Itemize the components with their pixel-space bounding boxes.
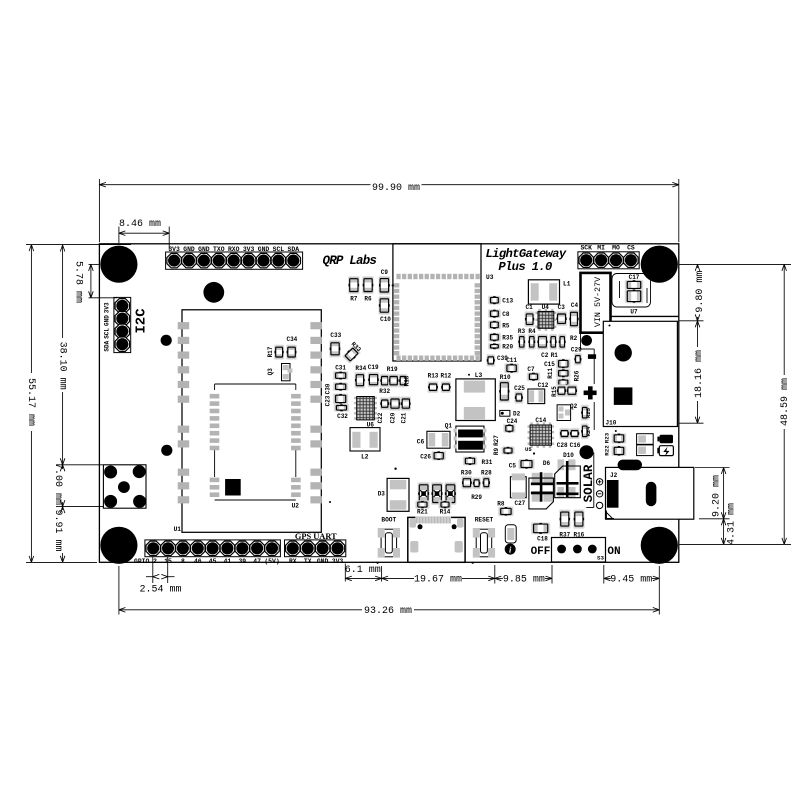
svg-text:L2: L2 [361,454,369,461]
svg-text:R24: R24 [585,426,592,437]
module U2 [210,384,331,510]
svg-text:C34: C34 [286,336,297,343]
svg-text:L3: L3 [475,372,483,379]
solar pads [596,479,602,509]
svg-text:55.17 mm: 55.17 mm [25,378,36,426]
svg-text:J2: J2 [610,472,618,479]
resistor R10 [499,374,511,402]
connector J4 SPI header SCK/MI/MO/CS [578,244,639,268]
svg-text:R11: R11 [547,368,554,379]
svg-text:R5: R5 [502,322,510,329]
svg-text:U4: U4 [542,304,550,311]
connector J6 GPS UART header [285,532,346,565]
svg-text:46: 46 [194,558,202,565]
svg-text:C13: C13 [502,298,513,305]
svg-text:R7: R7 [350,296,358,303]
svg-text:GND: GND [198,246,210,253]
component small near info [505,525,516,543]
svg-text:39: 39 [238,558,246,565]
svg-text:38.10 mm: 38.10 mm [56,342,67,390]
capacitor C18 [531,522,550,542]
capacitor C32 [334,404,349,420]
svg-text:3V3: 3V3 [103,302,110,313]
svg-text:R3: R3 [518,328,526,335]
svg-text:Q1: Q1 [445,422,453,429]
dimension 7.00 mm switch height [52,463,103,507]
silkscreen text QRP Labs [323,254,377,268]
svg-text:R28: R28 [481,470,492,477]
connector J3 I2C header [103,297,149,352]
dimension 93.26 mm [119,566,659,617]
svg-text:C6: C6 [417,439,425,446]
resistor R6 [362,276,374,302]
svg-text:U7: U7 [630,309,638,316]
capacitor C21 [401,396,412,423]
svg-text:R35: R35 [502,335,513,342]
resistor R8 [497,500,513,516]
capacitor C3 [556,304,567,326]
resistor R37 [559,510,570,539]
dimension 9.85 mm [495,565,552,586]
svg-text:C25: C25 [514,385,525,392]
svg-text:8: 8 [181,558,185,565]
PCB board outline [99,244,678,563]
svg-text:R27: R27 [493,435,500,446]
resistor R11 [547,368,571,379]
capacitor C8 [488,309,510,318]
via left of U1 [161,335,172,346]
inductor L2 [350,428,380,461]
dimension 9.20 mm [695,468,730,519]
svg-text:C19: C19 [368,364,379,371]
svg-text:R12: R12 [440,373,451,380]
capacitor C5 [509,459,535,470]
resistor R2 [558,334,577,350]
svg-text:BOOT: BOOT [381,517,396,524]
dimension 55.17 mm board height [25,245,97,563]
svg-text:C18: C18 [537,536,548,543]
svg-text:9.20 mm: 9.20 mm [711,475,722,517]
svg-text:I2C: I2C [134,308,150,334]
resistor R34 [355,365,367,388]
svg-text:R9: R9 [493,448,500,456]
capacitor C23 [325,394,349,407]
resistor R24 [581,424,592,440]
svg-text:99.90 mm: 99.90 mm [372,183,420,194]
svg-text:19.67 mm: 19.67 mm [414,575,462,586]
svg-text:R2: R2 [570,335,578,342]
svg-text:R14: R14 [440,508,451,515]
svg-text:RXO: RXO [228,246,240,253]
svg-text:C17: C17 [629,274,640,281]
svg-text:C5: C5 [509,463,517,470]
diode D6 [529,460,554,509]
svg-text:C12: C12 [538,382,549,389]
dimension 9.45 mm [604,565,660,615]
svg-text:5.78 mm: 5.78 mm [73,261,84,303]
svg-text:D2: D2 [513,411,521,418]
connector J5 GPIO header [134,540,280,565]
resistor R25 [581,405,592,421]
svg-text:RX: RX [289,558,297,565]
silkscreen VIN 5V-27V box [581,273,611,333]
capacitor C29 [571,347,582,366]
switch BOOT [377,517,401,564]
capacitor C1 [525,304,535,327]
svg-text:VIN 5V-27V: VIN 5V-27V [593,277,603,327]
transistor Q3 [267,364,293,381]
capacitor C11 [504,357,519,373]
svg-text:C31: C31 [335,365,346,372]
inductor L3 [456,372,495,420]
capacitor C19 [368,364,380,387]
svg-text:QRP Labs: QRP Labs [323,254,377,268]
capacitor C4 [569,302,579,328]
dimension 4.31 mm [721,503,737,545]
svg-text:MI: MI [597,244,605,251]
svg-text:C33: C33 [330,332,341,339]
LED D8 [431,482,443,505]
svg-text:OFF: OFF [531,546,551,558]
via above SOLAR [580,445,594,459]
svg-text:4.31 mm: 4.31 mm [726,503,737,545]
resistor R14 [438,500,451,515]
svg-text:R20: R20 [502,344,513,351]
svg-text:R10: R10 [500,374,511,381]
resistor R1 [549,334,558,359]
IC U5 with C14 [525,417,554,455]
svg-text:41: 41 [224,558,232,565]
svg-text:45: 45 [209,558,217,565]
mounting hole bottom-left [100,527,137,564]
capacitor C39 [486,354,508,366]
resistor R18 [399,374,411,388]
svg-text:Plus 1.0: Plus 1.0 [498,260,552,274]
silkscreen line under U7 block [611,315,679,317]
capacitor C13 [488,296,514,305]
svg-text:GPS UART: GPS UART [295,532,337,541]
svg-text:C23: C23 [325,395,332,406]
svg-text:GND: GND [258,246,270,253]
svg-text:R22: R22 [603,445,610,456]
svg-text:C15: C15 [544,361,555,368]
svg-text:47: 47 [253,558,261,565]
resistor R29 [471,477,482,501]
via lower-left of U1 [161,445,172,456]
resistor R20 [488,343,514,351]
svg-text:9.85 mm: 9.85 mm [503,575,545,586]
svg-text:GND: GND [103,315,110,326]
capacitor C15 [544,359,571,369]
svg-text:U5: U5 [525,446,532,453]
resistor R22 R23 labels [603,432,610,455]
svg-text:R26: R26 [573,370,580,381]
capacitor C17 [625,274,644,290]
capacitor C26 [420,451,446,461]
module U1 [174,310,322,533]
dimension 9.91 mm [52,507,65,563]
svg-text:TX: TX [304,558,312,565]
capacitor C30 [325,382,349,394]
capacitor C6 [417,431,450,448]
resistor R30 [461,470,472,490]
svg-text:C11: C11 [506,357,517,364]
resistor R17 [267,345,284,360]
svg-text:R23: R23 [603,432,610,443]
resistor R19 [380,366,399,388]
svg-text:ON: ON [607,546,620,558]
svg-text:SCL: SCL [273,246,285,253]
capacitor C16 [570,428,581,449]
svg-text:C4: C4 [571,302,579,309]
svg-text:R6: R6 [364,296,372,303]
via below VIN box [581,335,592,346]
svg-text:C2: C2 [541,352,549,359]
svg-text:Q3: Q3 [267,368,274,376]
svg-text:(5V): (5V) [264,558,279,565]
svg-text:C9: C9 [381,269,389,276]
svg-text:R34: R34 [355,365,366,372]
svg-text:TXO: TXO [213,246,225,253]
transistor Q2 [557,403,578,421]
svg-text:R4: R4 [528,328,536,335]
LED D9 [444,482,456,505]
svg-text:S3: S3 [597,555,604,562]
svg-text:C8: C8 [502,311,510,318]
dimension 2.54 mm pad pitch [139,557,181,596]
battery connector outline [581,333,595,430]
capacitor C12 [528,382,549,404]
capacitor C28 [557,428,570,449]
mounting hole top-left [100,246,137,283]
svg-text:C14: C14 [535,417,546,424]
svg-text:9.80 mm: 9.80 mm [695,271,706,313]
diode D10 [555,452,581,498]
svg-text:SCL: SCL [103,328,110,339]
svg-text:GND: GND [183,246,195,253]
svg-text:C3: C3 [558,304,566,311]
dimension 48.59 mm [680,264,792,544]
capacitor C27 [510,474,526,508]
resistor R3 [518,328,526,350]
svg-text:C30: C30 [325,383,332,394]
diode D2 [500,410,521,417]
svg-text:SDA: SDA [288,246,300,253]
svg-text:R18: R18 [404,375,411,386]
svg-text:C32: C32 [337,413,348,420]
dimension 6.1 mm [345,564,382,582]
dimension 9.80 mm [680,264,792,320]
capacitor pair near J10 [612,430,627,456]
svg-text:MO: MO [612,244,620,251]
resistor R33 [342,341,363,364]
inductor L1 [528,280,570,304]
svg-text:U3: U3 [486,274,494,281]
svg-text:3V3: 3V3 [243,246,255,253]
IC U4 [535,304,556,331]
connector J1 top I/O header 3V3/GND/TXO/RXO/SCL/SDA [166,246,303,269]
svg-text:CS: CS [627,244,635,251]
resistor R7 [348,276,360,302]
resistor R31 [463,457,493,466]
svg-text:C20: C20 [390,412,397,423]
svg-text:J10: J10 [606,420,617,427]
svg-text:D6: D6 [543,460,551,467]
svg-text:93.26 mm: 93.26 mm [364,606,412,617]
resistor R5 [488,320,510,329]
capacitor C10 [378,296,391,323]
resistor R9 [493,446,514,455]
connector J10 [603,321,677,426]
resistor R27 [493,435,500,446]
svg-text:D3: D3 [378,491,386,498]
capacitor C22 [377,412,384,423]
svg-text:R1: R1 [551,352,559,359]
dimension 38.10 mm [26,245,131,465]
capacitor C24 [503,418,518,433]
dimension 99.90 mm top width [99,179,678,242]
resistor R21 [415,500,429,515]
svg-text:C7: C7 [527,366,535,373]
resistor R4 [528,328,536,350]
svg-text:C26: C26 [420,454,431,461]
svg-text:C16: C16 [570,442,581,449]
svg-text:R25: R25 [585,407,592,418]
svg-text:R32: R32 [379,388,390,395]
dimension 8.46 mm hole-to-header [119,219,169,249]
svg-text:GPIO 2: GPIO 2 [134,558,157,565]
IC U6 [354,397,377,429]
svg-text:C24: C24 [507,418,518,425]
svg-text:48.59 mm: 48.59 mm [780,378,791,426]
svg-text:Q2: Q2 [570,403,578,410]
trace loop around U7 [612,274,651,308]
connector J7 USB [408,517,465,563]
connector J2 barrel jack [606,460,694,520]
capacitor C34 [286,336,298,360]
svg-text:GND: GND [317,558,329,565]
svg-text:C10: C10 [380,316,391,323]
capacitor C7 [527,366,540,381]
svg-text:R31: R31 [482,459,493,466]
svg-text:9.91 mm: 9.91 mm [52,509,63,551]
svg-text:U1: U1 [174,526,182,533]
svg-text:SCK: SCK [580,244,592,251]
svg-text:C1: C1 [525,304,533,311]
svg-text:9.45 mm: 9.45 mm [610,575,652,586]
resistor R35 [488,333,514,342]
svg-text:R17: R17 [267,346,274,357]
svg-text:3V3: 3V3 [332,558,344,565]
capacitor C20 [389,396,401,423]
svg-text:6.1 mm: 6.1 mm [345,565,381,576]
silkscreen title LightGateway Plus 1.0 [486,247,567,274]
svg-text:C22: C22 [377,412,384,423]
switch RESET [472,517,496,564]
switch S3 power [531,538,621,563]
svg-text:R21: R21 [417,508,428,515]
capacitor C9 [379,269,394,294]
dimension 19.67 mm [382,565,495,586]
svg-text:RESET: RESET [475,517,494,524]
svg-text:15: 15 [164,558,172,565]
capacitor C25 [514,385,525,404]
via near U1 top [203,282,224,303]
resistor R28 [481,470,492,490]
svg-text:R8: R8 [497,500,505,507]
svg-text:R13: R13 [428,373,439,380]
battery polarity minus [588,354,596,359]
svg-text:R29: R29 [471,494,482,501]
battery icon charging [657,446,673,457]
svg-text:LightGateway: LightGateway [486,247,567,261]
info button [505,544,516,555]
svg-text:7.00 mm: 7.00 mm [52,463,63,505]
svg-text:C28: C28 [557,442,568,449]
svg-text:R19: R19 [387,366,398,373]
capacitor C31 [333,365,348,380]
resistor R32 [379,388,390,410]
mounting hole top-right [641,246,678,283]
svg-text:C21: C21 [401,412,408,423]
switch SW1 tactile [103,465,146,508]
svg-text:2.54 mm: 2.54 mm [139,585,181,596]
svg-text:C27: C27 [514,500,525,507]
svg-text:U2: U2 [292,503,300,510]
svg-text:R30: R30 [461,470,472,477]
diode D3 [378,468,409,512]
dimension 5.78 mm [73,261,118,303]
svg-text:SDA: SDA [103,340,110,351]
capacitor C2 [537,334,549,359]
resistor R13 [428,373,439,394]
svg-text:L1: L1 [563,281,571,288]
svg-text:18.16 mm: 18.16 mm [694,350,705,398]
svg-text:8.46 mm: 8.46 mm [119,219,161,230]
svg-text:3V3: 3V3 [168,246,180,253]
module U3 [393,244,494,361]
IC U7 [625,289,644,315]
battery icon full [657,435,673,443]
silkscreen text SOLAR [582,453,596,508]
resistor R16 [573,510,584,539]
resistor R12 [440,373,451,394]
resistor R26 [556,370,580,386]
transistor Q1 [445,422,487,452]
battery polarity plus [584,386,597,399]
svg-text:D10: D10 [563,452,574,459]
LED D7 [418,482,430,505]
LED box pair [637,434,654,456]
dimension 18.16 mm [680,321,706,423]
resistor R15 [551,385,578,397]
mounting hole bottom-right [641,527,678,564]
capacitor C33 [329,332,341,357]
